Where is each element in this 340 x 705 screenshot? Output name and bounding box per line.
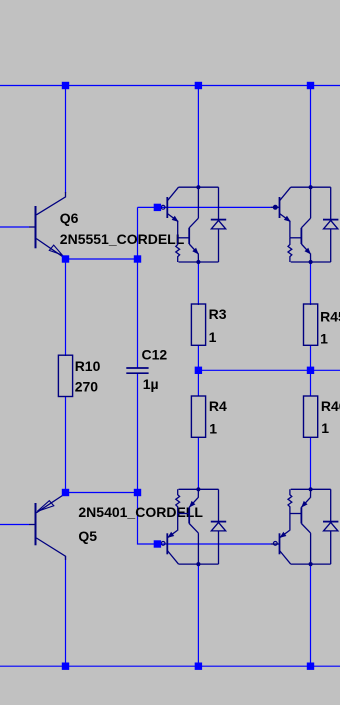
wire: left column R10 down to Q5 emitter node: [65, 396, 67, 493]
lower-right internal resistor zigzag: [288, 489, 292, 513]
upper-right Q2 emitter stub: [310, 253, 312, 262]
junction square: top rail / Q6 collector: [62, 82, 69, 89]
upper-middle Q1 emitter arrow: [172, 216, 177, 221]
junction square: Q5 emitter node: [62, 489, 69, 496]
upper-right Q1 emitter to Q2 base vertical: [289, 221, 291, 238]
transistor Q6 emitter open arrow: [49, 245, 62, 255]
junction square: C12 top node: [134, 255, 141, 262]
upper-right Q2 base lead: [290, 237, 302, 239]
output device upper-right: collector rail line: [291, 186, 331, 188]
junction dot emitter rail lower-right: [309, 487, 313, 491]
upper-middle internal diode triangle: [211, 220, 225, 229]
upper-right internal diode bottom lead: [330, 229, 332, 262]
svg-text:R4: R4: [209, 398, 227, 414]
upper-right internal resistor zigzag: [288, 238, 292, 262]
upper-middle Q2 base bar: [188, 228, 190, 244]
transistor Q6 collector diagonal: [36, 192, 65, 215]
svg-text:1: 1: [321, 420, 329, 436]
transistor Q6 base bar: [35, 206, 37, 248]
lower-middle Q2 base lead: [178, 513, 190, 515]
junction square: bottom rail / middle column: [195, 663, 202, 670]
upper-middle Q2 emitter stub: [197, 253, 199, 262]
upper-right Q1 emitter diagonal: [280, 214, 290, 222]
resistor R45 body: [304, 304, 318, 345]
svg-text:R3: R3: [209, 306, 227, 322]
transistor Q6 emitter diagonal: [36, 239, 65, 259]
transistor Q5 base bar: [35, 503, 37, 545]
junction dot emitter rail upper-middle: [196, 260, 200, 264]
lower-right device base lead: [271, 543, 280, 545]
wire: right column bottom device to bottom rail: [310, 564, 312, 666]
lower-right inner collector stem: [310, 533, 312, 564]
lower-middle Q1 emitter to Q2 base vertical: [177, 514, 179, 531]
svg-text:1: 1: [209, 421, 217, 437]
upper-middle Q1 collector diagonal: [167, 187, 178, 201]
upper-right internal diode cathode bar: [323, 219, 338, 221]
lower-right Q1 collector diagonal: [280, 551, 291, 565]
junction dot collector rail lower-middle: [196, 562, 200, 566]
svg-text:R46: R46: [321, 398, 340, 414]
junction dot collector rail upper-middle: [196, 185, 200, 189]
upper-right base pin ring: [273, 205, 277, 209]
wire: Q5 base from left edge: [0, 524, 29, 526]
wire: C12 column lower with corner to bottom base bus: [138, 373, 158, 544]
wire: Q6 base from left edge: [0, 226, 29, 228]
upper-right Q1 base bar: [279, 197, 281, 218]
wire: left column Q6 emitter down to R10: [65, 259, 67, 356]
upper-right inner collector stem: [310, 187, 312, 218]
junction square: top rail / middle column: [195, 82, 202, 89]
lower-right base pin ring: [273, 542, 277, 546]
transistor Q5 base lead: [29, 524, 35, 526]
wire: left column top (Q6 collector to top rail): [65, 86, 67, 194]
junction square: C12 bottom node: [134, 489, 141, 496]
upper-middle Q2 emitter arrow: [193, 248, 198, 253]
lower-middle Q1 base bar: [166, 533, 168, 554]
lower-middle internal resistor zigzag: [176, 489, 180, 513]
lower-right Q1 emitter diagonal: [280, 530, 290, 537]
upper-middle Q1 emitter to Q2 base vertical: [177, 221, 179, 238]
svg-text:2N5401_CORDELL: 2N5401_CORDELL: [78, 504, 203, 520]
svg-text:2N5551_CORDELL: 2N5551_CORDELL: [60, 231, 185, 247]
output device lower-middle: emitter rail line: [179, 488, 219, 490]
lower-middle Q1 collector diagonal: [167, 551, 178, 565]
lower-middle internal diode top lead: [218, 489, 220, 521]
svg-text:1: 1: [320, 331, 328, 347]
transistor Q6 base lead: [29, 226, 35, 228]
upper-right Q2 base bar: [300, 228, 302, 244]
wire: output node horizontal to right edge: [198, 369, 340, 371]
upper-middle inner collector stem: [197, 187, 199, 218]
lower-right internal diode bottom lead: [330, 531, 332, 564]
wire: middle column emitter rail to R3: [197, 262, 199, 305]
resistor R3 body: [191, 304, 205, 345]
junction dot collector rail upper-right: [309, 185, 313, 189]
lower-right Q2 collector diagonal: [301, 524, 310, 534]
upper-right Q1 collector diagonal: [280, 187, 291, 201]
svg-text:270: 270: [75, 378, 99, 394]
lower-middle Q2 emitter stub: [197, 489, 199, 498]
lower-right Q2 emitter arrow: [302, 502, 307, 507]
wire: middle column R3 to R4 through output node: [197, 345, 199, 397]
junction dot emitter rail lower-middle: [196, 487, 200, 491]
capacitor C12 top plate: [126, 367, 148, 369]
upper-right Q2 emitter arrow: [305, 248, 310, 253]
lower-right internal diode top lead: [330, 489, 332, 521]
upper-middle Q2 base lead: [178, 237, 190, 239]
lower-middle internal diode cathode bar: [211, 521, 226, 523]
output device lower-right: emitter rail line: [291, 488, 331, 490]
wire: bottom supply rail: [0, 665, 340, 667]
upper-right internal diode top lead: [330, 187, 332, 219]
resistor R4 body: [191, 396, 205, 437]
lower-right Q1 emitter arrow: [280, 533, 285, 538]
wire: bottom base bus: [157, 543, 270, 545]
upper-middle Q2 collector diagonal: [189, 218, 198, 228]
lower-right internal diode triangle: [324, 522, 338, 531]
junction square: bottom base bus: [154, 540, 161, 547]
wire: left column Q5 collector to bottom rail: [65, 556, 67, 666]
svg-text:C12: C12: [142, 347, 168, 363]
resistor R10 body: [58, 355, 72, 396]
wire: C12 column upper (base bus corner down to C12): [137, 207, 139, 368]
upper-middle Q1 emitter diagonal: [167, 214, 177, 222]
upper-right Q2 collector diagonal: [301, 218, 310, 228]
lower-middle Q1 emitter diagonal: [167, 530, 177, 537]
junction square: output node middle: [195, 367, 202, 374]
upper-right internal diode triangle: [324, 220, 338, 229]
output device upper-middle: collector rail line: [179, 186, 219, 188]
wire: middle column R4 down to bottom device: [197, 437, 199, 489]
transistor Q5 emitter diagonal: [36, 494, 65, 513]
lower-middle base pin ring: [161, 542, 165, 546]
lower-right Q2 base lead: [290, 513, 302, 515]
junction dot emitter rail upper-right: [309, 260, 313, 264]
svg-text:R45: R45: [320, 309, 340, 325]
wire: middle column bottom device to bottom rail: [197, 564, 199, 666]
upper-right Q2 emitter diagonal: [301, 244, 310, 254]
lower-right Q2 emitter stub: [310, 489, 312, 498]
transistor Q5 emitter open arrow: [37, 501, 54, 512]
capacitor C12 bottom plate: [126, 372, 148, 374]
lower-middle Q2 emitter diagonal: [189, 498, 198, 508]
lower-right Q1 base bar: [279, 533, 281, 554]
lower-right internal diode cathode bar: [323, 521, 338, 523]
lower-middle Q1 emitter arrow: [168, 533, 173, 538]
junction square: top rail / right column: [307, 82, 314, 89]
svg-text:Q5: Q5: [78, 528, 97, 544]
lower-right Q2 base bar: [300, 507, 302, 523]
lower-middle Q2 base bar: [188, 507, 190, 523]
lower-right Q1 emitter to Q2 base vertical: [289, 514, 291, 531]
svg-text:1: 1: [209, 329, 217, 345]
svg-text:1µ: 1µ: [143, 376, 159, 392]
lower-middle internal diode triangle: [211, 522, 225, 531]
wire: top base bus: [138, 206, 271, 208]
junction square: Q6 emitter node: [62, 255, 69, 262]
lower-middle internal diode bottom lead: [218, 531, 220, 564]
output device upper-middle: emitter rail line: [179, 261, 219, 263]
upper-right device base junction dot: [273, 205, 277, 209]
upper-right Q1 emitter arrow: [285, 216, 290, 221]
svg-text:Q6: Q6: [60, 210, 79, 226]
upper-middle internal diode top lead: [218, 187, 220, 219]
wire: right column from top rail: [310, 86, 312, 188]
output device lower-middle: collector rail line: [179, 563, 219, 565]
junction dot collector rail lower-right: [309, 562, 313, 566]
output device upper-right: emitter rail line: [291, 261, 331, 263]
upper-middle internal diode cathode bar: [211, 219, 226, 221]
wire: Q6 emitter to C12 node: [66, 258, 138, 260]
upper-middle base pin ring: [161, 205, 165, 209]
output device lower-right: collector rail line: [291, 563, 331, 565]
upper-middle internal resistor zigzag: [176, 238, 180, 262]
wire: right column R45 to R46 through output node: [310, 345, 312, 397]
lower-middle inner collector stem: [197, 533, 199, 564]
wire: top supply rail: [0, 85, 340, 87]
wire: middle column from top rail: [197, 86, 199, 188]
transistor Q5 collector diagonal: [36, 538, 65, 560]
junction square: output node right: [307, 367, 314, 374]
svg-text:R10: R10: [75, 358, 101, 374]
upper-middle Q2 emitter diagonal: [189, 244, 198, 254]
lower-middle Q2 collector diagonal: [189, 524, 198, 534]
upper-right device base lead: [271, 206, 280, 208]
wire: Q5 emitter node to C12 column: [66, 492, 138, 494]
junction square: bottom rail / right column: [307, 663, 314, 670]
wire: right column emitter rail to R45: [310, 262, 312, 305]
upper-middle Q1 base bar: [166, 197, 168, 218]
wire: right column R46 down to bottom device: [310, 437, 312, 489]
resistor R46 body: [304, 396, 318, 437]
lower-right Q2 emitter diagonal: [301, 498, 310, 508]
junction square: bottom rail / Q5 collector: [62, 663, 69, 670]
junction square: top base bus: [154, 204, 161, 211]
upper-middle internal diode bottom lead: [218, 229, 220, 262]
lower-middle Q2 emitter arrow: [190, 502, 195, 507]
